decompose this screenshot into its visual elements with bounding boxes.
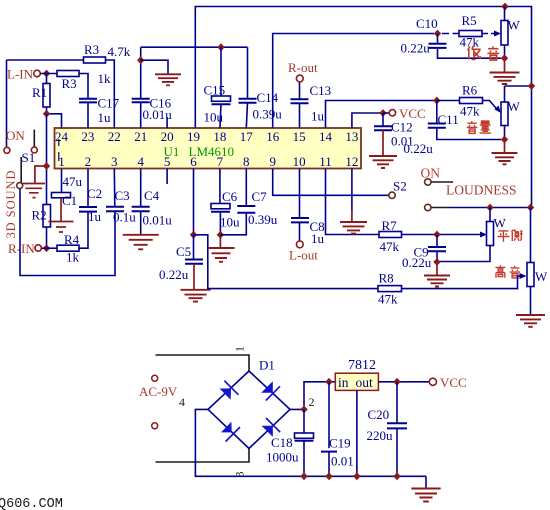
svg-text:0.39u: 0.39u xyxy=(253,107,283,122)
wire ground net horizontal C16-C14 xyxy=(141,46,248,48)
svg-text:R-IN: R-IN xyxy=(8,241,35,256)
svg-text:C11: C11 xyxy=(438,112,459,127)
svg-text:in: in xyxy=(338,375,349,390)
wire pin 16 riser to bass net xyxy=(273,34,434,129)
svg-text:R4: R4 xyxy=(64,232,80,247)
svg-text:1u: 1u xyxy=(311,231,325,246)
ground bass pot xyxy=(490,58,520,84)
svg-text:1000u: 1000u xyxy=(266,450,299,465)
ground C1 xyxy=(49,222,74,233)
svg-text:R2: R2 xyxy=(32,208,47,223)
node R-IN junction xyxy=(43,244,50,252)
wire R1 bottom to pin 24 xyxy=(47,107,62,128)
svg-text:W: W xyxy=(494,216,507,231)
svg-text:LOUDNESS: LOUDNESS xyxy=(446,183,517,198)
node C20 rail junction xyxy=(393,472,400,480)
node S1 ground junction xyxy=(43,162,50,170)
label balance chinese xyxy=(498,229,523,241)
resistor R2 xyxy=(32,205,51,228)
svg-text:R5: R5 xyxy=(462,13,477,28)
svg-text:R6: R6 xyxy=(462,83,478,98)
ground C9 xyxy=(424,262,450,287)
capacitor C14 xyxy=(239,47,283,121)
bridge rectifier D1 diamond xyxy=(208,371,290,449)
svg-text:C6: C6 xyxy=(222,189,238,204)
svg-text:21: 21 xyxy=(134,129,147,144)
resistor R3 (4.7k) xyxy=(84,42,131,63)
wire AC top to bridge pin 1 xyxy=(156,355,250,371)
svg-text:24: 24 xyxy=(55,129,69,144)
svg-text:U1: U1 xyxy=(164,144,180,159)
svg-text:C13: C13 xyxy=(310,83,332,98)
wire bridge pin 2 riser xyxy=(290,382,335,410)
L-IN terminal xyxy=(7,67,40,82)
node pin 6 junction xyxy=(190,231,197,239)
ground S1 xyxy=(22,166,47,198)
capacitor C5 xyxy=(159,235,203,290)
svg-text:0.01u: 0.01u xyxy=(143,213,173,228)
label bridge pin 4 xyxy=(179,395,185,409)
node 7812 gnd rail junction xyxy=(353,472,360,480)
resistor R3 (1k) xyxy=(57,71,111,92)
wire C3 to pin 3 xyxy=(113,169,116,207)
wire 7812 out to VCC xyxy=(378,381,429,383)
wire S2 to pots xyxy=(431,207,530,209)
node pin 7 junction xyxy=(217,231,224,239)
svg-text:3: 3 xyxy=(111,154,118,169)
capacitor C2 xyxy=(79,186,102,224)
svg-text:0.01: 0.01 xyxy=(331,454,354,469)
capacitor C16 xyxy=(132,96,173,123)
VCC terminal xyxy=(383,106,426,121)
svg-text:0.22u: 0.22u xyxy=(402,255,432,270)
capacitor C4 xyxy=(132,169,173,228)
node bridge output junction xyxy=(300,406,307,414)
svg-text:C5: C5 xyxy=(176,244,191,259)
wire R7 to balance wiper xyxy=(402,232,488,238)
svg-text:220u: 220u xyxy=(367,428,394,443)
svg-text:S1: S1 xyxy=(22,150,36,165)
svg-text:ON: ON xyxy=(6,128,25,143)
wire treble pot top lead xyxy=(530,208,532,263)
svg-text:C20: C20 xyxy=(368,407,390,422)
svg-text:19: 19 xyxy=(187,129,200,144)
node C9 top junction xyxy=(433,231,440,239)
node C19 rail junction xyxy=(325,472,332,480)
switch S2 xyxy=(389,166,453,211)
node bass pot top junction xyxy=(501,3,508,11)
wire bridge pin 4 to minus rail xyxy=(195,409,426,476)
resistor R5 xyxy=(442,13,482,50)
VCC psu terminal xyxy=(429,375,466,390)
svg-text:22: 22 xyxy=(108,129,121,144)
capacitor C11 xyxy=(404,101,502,157)
svg-text:0.22u: 0.22u xyxy=(401,41,431,56)
wire AC bottom to bridge pin 3 xyxy=(156,449,250,463)
svg-text:18: 18 xyxy=(213,129,226,144)
node C20 junction xyxy=(393,378,400,386)
svg-text:C19: C19 xyxy=(329,436,351,451)
label volume chinese xyxy=(467,121,491,133)
resistor R1 xyxy=(32,74,50,108)
svg-text:4.7k: 4.7k xyxy=(108,44,131,59)
svg-text:1: 1 xyxy=(58,154,65,169)
node VCC junction xyxy=(379,109,386,117)
svg-text:23: 23 xyxy=(81,129,94,144)
svg-text:out: out xyxy=(356,375,374,390)
svg-text:C7: C7 xyxy=(252,189,268,204)
svg-text:LM4610: LM4610 xyxy=(189,144,235,159)
svg-text:C15: C15 xyxy=(204,83,226,98)
svg-text:L-out: L-out xyxy=(289,248,318,263)
IC U1 body xyxy=(55,128,362,169)
ground volume pot xyxy=(492,140,518,165)
AC-9V terminals xyxy=(139,375,178,429)
svg-text:0.22u: 0.22u xyxy=(159,267,189,282)
svg-text:C17: C17 xyxy=(98,96,120,111)
svg-text:R8: R8 xyxy=(379,271,394,286)
svg-text:2: 2 xyxy=(85,154,92,169)
potentiometer W bass xyxy=(501,7,521,59)
svg-text:47u: 47u xyxy=(63,174,83,189)
ground C5 xyxy=(181,290,211,302)
label bridge pin 2 xyxy=(309,395,315,409)
switch S1 contacts xyxy=(4,130,37,189)
wire R3(1k) to C17 xyxy=(79,74,88,99)
potentiometer W balance xyxy=(440,208,507,262)
svg-text:4: 4 xyxy=(179,395,185,409)
svg-text:C14: C14 xyxy=(257,90,279,105)
svg-text:47k: 47k xyxy=(460,104,480,119)
node volume pot bottom junction xyxy=(501,136,508,144)
svg-text:R3: R3 xyxy=(62,76,77,91)
wire pin 14 to volume net xyxy=(326,101,437,129)
svg-text:S2: S2 xyxy=(393,179,407,194)
switch S1 ON label xyxy=(6,128,25,143)
diode D1 upper-left xyxy=(220,381,239,400)
wire L-IN top net to pin22 left segment xyxy=(7,59,84,61)
wire pin 13 to VCC xyxy=(352,113,383,128)
wire pin 6 net xyxy=(193,169,195,235)
ground pin 12 xyxy=(340,222,367,234)
svg-text:16: 16 xyxy=(266,129,280,144)
wire C14 to pin 17 xyxy=(246,103,247,128)
capacitor C7 xyxy=(220,169,277,235)
svg-text:8: 8 xyxy=(243,154,250,169)
svg-text:R-out: R-out xyxy=(288,60,318,75)
wire S1 left lead xyxy=(6,60,8,147)
IC U1 pin numbers top row xyxy=(55,129,358,144)
svg-text:15: 15 xyxy=(293,129,306,144)
switch S1 pole wire to C3 xyxy=(20,189,115,276)
resistor R6 xyxy=(460,83,483,119)
resistor R4 xyxy=(41,232,79,265)
diode D1 upper-right xyxy=(261,381,280,400)
capacitor C12 xyxy=(374,113,414,149)
svg-text:17: 17 xyxy=(240,129,254,144)
wire C15 to pin 18 xyxy=(220,104,221,128)
node ground-net junction xyxy=(137,56,144,64)
ground psu rail xyxy=(411,476,440,501)
label bridge pin 3 xyxy=(233,472,247,478)
wire R4 to C2 xyxy=(79,212,88,248)
label D1 xyxy=(259,358,275,373)
svg-text:0.39u: 0.39u xyxy=(248,212,278,227)
capacitor C9 xyxy=(402,235,446,271)
label bass chinese xyxy=(468,46,500,60)
wire R6 left xyxy=(437,100,460,102)
label bridge pin 1 xyxy=(233,346,247,352)
wire 7812 gnd pin xyxy=(356,390,358,476)
svg-text:2: 2 xyxy=(309,395,315,409)
svg-text:R7: R7 xyxy=(382,218,398,233)
wire pin 12 to ground xyxy=(351,169,353,223)
resistor R7 xyxy=(379,218,402,254)
node right rail loudness junction xyxy=(527,204,534,212)
R-out terminal xyxy=(288,60,318,82)
svg-text:AC-9V: AC-9V xyxy=(139,384,178,399)
node C10 junction xyxy=(434,30,441,38)
wire pin 10 to C8 xyxy=(299,169,301,218)
svg-text:11: 11 xyxy=(319,154,332,169)
svg-text:20: 20 xyxy=(161,129,174,144)
wire L-IN to R3(1k) xyxy=(40,73,57,75)
svg-text:ON: ON xyxy=(421,166,441,181)
svg-text:C2: C2 xyxy=(87,186,102,201)
svg-text:C10: C10 xyxy=(416,16,438,31)
capacitor C15 electrolytic xyxy=(204,47,231,124)
node R1 bottom junction xyxy=(43,110,50,118)
diode D1 lower-left xyxy=(221,422,240,442)
capacitor C6 electrolytic xyxy=(211,169,240,235)
svg-text:R1: R1 xyxy=(32,85,47,100)
svg-text:L-IN: L-IN xyxy=(7,67,34,82)
svg-text:C1: C1 xyxy=(62,193,77,208)
wire R1 junction down to R2 xyxy=(46,114,48,205)
svg-text:1u: 1u xyxy=(88,209,102,224)
svg-text:9: 9 xyxy=(269,154,276,169)
svg-text:47k: 47k xyxy=(380,239,400,254)
node L-IN junction xyxy=(43,70,50,78)
ground C6 C7 xyxy=(208,235,235,262)
svg-text:4: 4 xyxy=(137,154,144,169)
wire R-out to C13 to pin 15 xyxy=(299,82,301,128)
potentiometer W treble xyxy=(527,263,548,316)
label LOUDNESS xyxy=(446,183,517,198)
svg-text:C18: C18 xyxy=(271,435,293,450)
wire R8 to treble wiper xyxy=(402,273,527,289)
IC U1 pin numbers bottom row xyxy=(58,154,358,169)
node C11 junction xyxy=(433,97,440,105)
L-out terminal xyxy=(289,241,318,263)
svg-text:1: 1 xyxy=(233,346,247,352)
svg-text:0.22u: 0.22u xyxy=(404,141,434,156)
wire C2 to pin 2 xyxy=(87,169,89,208)
svg-text:14: 14 xyxy=(319,129,333,144)
watermark Q606.COM xyxy=(0,497,63,510)
node 7812 in junction xyxy=(325,378,332,386)
svg-text:0.01u: 0.01u xyxy=(143,107,173,122)
wire ground stem xyxy=(141,60,168,73)
svg-text:1k: 1k xyxy=(98,71,112,86)
capacitor C18 electrolytic xyxy=(266,409,314,476)
wire C16 branch xyxy=(140,47,142,98)
label 3D SOUND xyxy=(4,171,18,239)
wire pin6 node to R8 rail xyxy=(194,235,379,289)
ground C4 xyxy=(123,211,159,249)
wire pin 9 to S2 xyxy=(273,169,389,196)
svg-text:VCC: VCC xyxy=(440,375,467,390)
node bass pot bottom junction xyxy=(501,54,508,62)
node balance top junction xyxy=(486,204,493,212)
pin 20 stub xyxy=(166,117,168,128)
wire R6 to volume wiper arrow xyxy=(483,101,502,114)
svg-text:C4: C4 xyxy=(144,188,160,203)
resistor R8 xyxy=(378,271,402,307)
svg-text:W: W xyxy=(508,18,521,33)
svg-text:13: 13 xyxy=(345,129,358,144)
node right rail volume junction xyxy=(528,82,535,90)
node C15 junction xyxy=(217,43,224,51)
svg-text:7812: 7812 xyxy=(348,358,376,373)
potentiometer W volume xyxy=(501,86,532,140)
svg-text:10u: 10u xyxy=(220,215,240,230)
diode D1 lower-right xyxy=(262,418,281,437)
regulator 7812 box xyxy=(335,358,378,390)
capacitor C17 xyxy=(79,96,120,126)
ground C16 net xyxy=(155,74,181,85)
node C9 bottom junction xyxy=(433,258,440,266)
svg-text:Q606.COM: Q606.COM xyxy=(0,497,63,510)
svg-text:C3: C3 xyxy=(115,188,130,203)
IC U1 designator label xyxy=(164,144,235,159)
capacitor C8 xyxy=(291,218,325,246)
svg-text:3D SOUND: 3D SOUND xyxy=(4,171,18,239)
capacitor C13 xyxy=(291,83,332,124)
svg-text:W: W xyxy=(508,99,521,114)
pin 5 stub xyxy=(166,169,168,185)
ground treble pot xyxy=(516,315,545,327)
svg-text:1k: 1k xyxy=(66,250,80,265)
svg-text:12: 12 xyxy=(345,154,358,169)
svg-text:10: 10 xyxy=(293,154,306,169)
capacitor C20 xyxy=(367,382,408,477)
wire R5 to bass wiper arrow xyxy=(482,31,501,37)
svg-text:1u: 1u xyxy=(98,110,112,125)
node C18 rail junction xyxy=(300,472,307,480)
label treble chinese xyxy=(495,265,520,278)
wire R3 right to pin 22 xyxy=(106,60,115,128)
R-IN terminal xyxy=(8,241,41,256)
wire C17 to pin 23 xyxy=(87,102,89,128)
svg-text:D1: D1 xyxy=(259,358,275,373)
wire C16 to pin 21 xyxy=(140,102,142,128)
svg-text:W: W xyxy=(535,269,548,284)
ground C12 xyxy=(369,130,397,168)
capacitor C1 (47u) from pin 1 xyxy=(52,169,83,222)
svg-text:R3: R3 xyxy=(84,42,99,57)
wire R2 to R-IN xyxy=(46,227,48,248)
svg-text:47k: 47k xyxy=(378,292,398,307)
wire pin 11 to R7 xyxy=(326,169,380,235)
capacitor C19 xyxy=(321,382,354,477)
svg-text:1u: 1u xyxy=(311,109,325,124)
svg-text:C12: C12 xyxy=(391,120,413,135)
wire top rail xyxy=(195,7,531,208)
capacitor C10 xyxy=(401,16,502,58)
capacitor C3 xyxy=(106,188,136,225)
